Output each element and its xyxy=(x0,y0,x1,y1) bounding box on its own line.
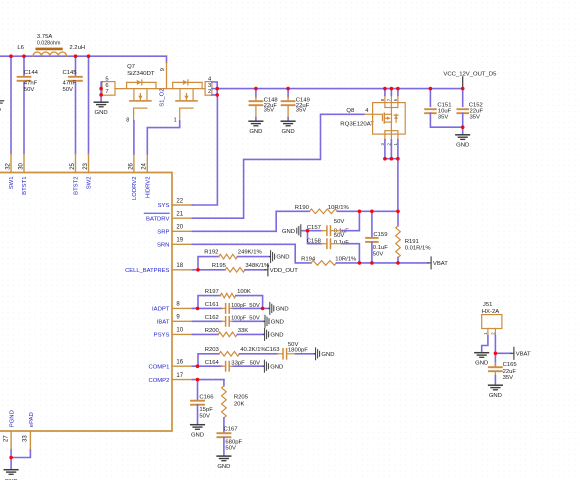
capacitor C161 xyxy=(225,304,227,313)
capacitor C159 xyxy=(366,237,378,239)
svg-text:SYS: SYS xyxy=(158,203,170,209)
svg-text:VCC_12V_OUT_D5: VCC_12V_OUT_D5 xyxy=(443,71,497,77)
svg-text:21: 21 xyxy=(176,212,183,218)
svg-text:50V: 50V xyxy=(334,233,345,239)
svg-text:50V: 50V xyxy=(334,219,345,225)
wire IBAT xyxy=(193,320,222,322)
svg-text:PGND: PGND xyxy=(10,410,16,427)
wire J51 pin2 VBAT xyxy=(494,336,496,366)
svg-text:C164: C164 xyxy=(205,360,220,366)
svg-text:C161: C161 xyxy=(205,302,219,308)
svg-text:30: 30 xyxy=(18,162,24,169)
svg-text:R190: R190 xyxy=(295,205,310,211)
svg-text:27: 27 xyxy=(3,435,9,442)
svg-text:IBAT: IBAT xyxy=(157,320,170,326)
wire to C151 xyxy=(429,89,431,107)
capacitor C164 xyxy=(225,362,227,371)
wire Q8 top pins xyxy=(384,89,386,96)
svg-text:R191: R191 xyxy=(405,239,419,245)
wire BTST2 upper xyxy=(75,56,77,76)
capacitor C152 xyxy=(457,108,468,110)
resistor R192 xyxy=(219,254,238,259)
svg-text:GND: GND xyxy=(475,361,488,367)
wire Q7 drain tie (pins 2-4) xyxy=(212,82,217,95)
svg-text:35V: 35V xyxy=(503,375,514,381)
ground flag (R200) xyxy=(262,333,265,335)
svg-text:C152: C152 xyxy=(469,102,483,108)
ground (PGND) xyxy=(4,469,18,471)
svg-text:SW1: SW1 xyxy=(9,177,15,190)
wire C157 to SRP node xyxy=(342,211,360,230)
ground flag (C163) xyxy=(313,353,316,355)
svg-text:BTST2: BTST2 xyxy=(74,177,80,195)
wire Q8 bottom pins xyxy=(384,140,386,159)
svg-text:0.028ohm: 0.028ohm xyxy=(37,40,61,46)
svg-text:GND: GND xyxy=(217,464,230,470)
capacitor C151 xyxy=(425,108,436,110)
svg-text:ePAD: ePAD xyxy=(29,412,35,427)
pin 23 SW2 xyxy=(88,154,90,173)
svg-text:GND: GND xyxy=(282,129,295,135)
capacitor C163 xyxy=(282,349,284,359)
wire BTST1 lower xyxy=(23,81,25,154)
ground flag (C162) xyxy=(263,320,266,322)
svg-text:R203: R203 xyxy=(205,347,220,353)
wire J51 pin1 to GND xyxy=(482,336,488,352)
svg-text:0.01R/1%: 0.01R/1% xyxy=(405,246,432,252)
svg-text:D: D xyxy=(0,108,1,114)
wire BTST1 upper xyxy=(23,56,25,76)
pin 17 COMP2 xyxy=(172,379,193,381)
svg-text:50V: 50V xyxy=(373,252,384,258)
svg-text:23: 23 xyxy=(83,162,89,169)
svg-text:C167: C167 xyxy=(224,426,238,432)
wire VCC_12V rail xyxy=(217,88,463,90)
svg-text:R197: R197 xyxy=(205,289,219,295)
svg-text:BTST1: BTST1 xyxy=(22,177,28,195)
capacitor C162 xyxy=(225,317,227,326)
wire LODRV2 xyxy=(133,121,135,154)
wire IADPT xyxy=(193,307,222,309)
svg-text:18: 18 xyxy=(176,263,183,269)
wire BTST2 lower xyxy=(75,81,77,154)
svg-text:C144: C144 xyxy=(24,70,39,76)
svg-text:R194: R194 xyxy=(301,257,316,263)
wire PSYS xyxy=(193,333,219,335)
pin 18 CELL_BATPRES xyxy=(172,269,193,271)
wire to R203 xyxy=(198,354,219,366)
svg-text:CELL_BATPRES: CELL_BATPRES xyxy=(125,268,169,274)
svg-text:20: 20 xyxy=(176,225,183,231)
svg-text:SW2: SW2 xyxy=(87,177,93,190)
ground (J51) xyxy=(475,352,489,354)
svg-text:VBAT: VBAT xyxy=(433,261,448,267)
ground flag (C161) xyxy=(268,307,271,309)
svg-text:26: 26 xyxy=(128,162,134,169)
svg-text:R205: R205 xyxy=(234,394,249,400)
ground (C152) xyxy=(456,134,470,136)
svg-text:S1_O2: S1_O2 xyxy=(159,88,165,106)
wire C158 to VBAT node xyxy=(342,244,360,263)
svg-text:249K/1%: 249K/1% xyxy=(238,249,263,255)
wire COMP1 xyxy=(193,365,222,367)
wire to C148 xyxy=(255,89,257,97)
svg-text:SiZ340DT: SiZ340DT xyxy=(127,71,155,77)
pin 27 PGND xyxy=(10,431,12,450)
resistor R190 xyxy=(309,209,337,214)
svg-text:SRN: SRN xyxy=(157,243,169,249)
svg-text:9: 9 xyxy=(160,68,166,71)
svg-text:10R/1%: 10R/1% xyxy=(335,257,357,263)
ground (C149) xyxy=(281,120,295,122)
wire COMP2 xyxy=(193,379,224,381)
transistor Q8 RQ3E120AT xyxy=(340,95,405,145)
pin 10 PSYS xyxy=(172,333,193,335)
svg-text:Q7: Q7 xyxy=(127,64,135,70)
svg-text:50V: 50V xyxy=(24,87,35,93)
pin 8 IADPT xyxy=(172,307,193,309)
wire SRP xyxy=(193,211,310,231)
svg-text:0.1uF: 0.1uF xyxy=(373,245,388,251)
svg-text:LODRV2: LODRV2 xyxy=(132,177,138,200)
svg-text:COMP2: COMP2 xyxy=(148,378,169,384)
svg-text:COMP1: COMP1 xyxy=(148,364,169,370)
wire to R205 xyxy=(223,380,225,386)
pin 22 SYS xyxy=(172,204,193,206)
capacitor C144 xyxy=(18,76,31,78)
svg-text:35V: 35V xyxy=(264,108,275,114)
net label VDD_OUT xyxy=(265,269,268,271)
svg-text:GND: GND xyxy=(489,393,502,399)
svg-text:C158: C158 xyxy=(307,239,322,245)
svg-text:R192: R192 xyxy=(204,249,218,255)
resistor R200 xyxy=(218,332,237,337)
svg-text:50V: 50V xyxy=(225,445,236,451)
svg-text:50V: 50V xyxy=(199,413,210,419)
svg-text:33K: 33K xyxy=(238,328,249,334)
svg-text:IADPT: IADPT xyxy=(152,307,170,313)
wire to C152 xyxy=(462,89,464,107)
svg-text:10: 10 xyxy=(176,328,183,334)
svg-text:L6: L6 xyxy=(17,45,24,51)
wire SYS xyxy=(193,95,218,205)
svg-text:GND: GND xyxy=(276,307,289,313)
pin 32 SW1 xyxy=(10,154,12,173)
pin 20 SRP xyxy=(172,230,193,232)
svg-text:19: 19 xyxy=(176,238,183,244)
resistor R197 xyxy=(220,293,236,298)
resistor R205 xyxy=(222,386,227,418)
pin 33 ePAD xyxy=(29,431,31,450)
svg-text:C166: C166 xyxy=(199,394,214,400)
wire BATDRV to Q8 gate xyxy=(193,114,364,218)
capacitor C165 xyxy=(489,366,502,368)
net label VBAT (J51) xyxy=(511,352,514,354)
pin 9 IBAT xyxy=(172,320,193,322)
resistor R203 xyxy=(219,352,240,357)
wire to C166 xyxy=(197,380,199,401)
wire to C149 xyxy=(287,89,289,97)
capacitor C167 xyxy=(217,432,230,434)
svg-text:17: 17 xyxy=(176,373,183,379)
svg-text:32: 32 xyxy=(5,162,11,169)
wire SW1 xyxy=(10,56,12,154)
svg-text:3.75A: 3.75A xyxy=(37,34,52,40)
net label VBAT xyxy=(428,262,431,264)
svg-text:40.2K/1%: 40.2K/1% xyxy=(240,347,266,353)
wire Q7 source tie (pins 5-7) xyxy=(100,82,103,101)
resistor R195 xyxy=(225,268,245,273)
wire to R197 xyxy=(198,296,220,309)
svg-text:HIDRV2: HIDRV2 xyxy=(145,177,151,199)
resistor R191 xyxy=(396,226,401,258)
wire Q8 source to SRP node xyxy=(397,159,399,212)
svg-text:20K: 20K xyxy=(234,401,245,407)
svg-text:5: 5 xyxy=(105,76,108,82)
svg-text:100K: 100K xyxy=(237,289,251,295)
wire SW2 xyxy=(88,56,90,154)
svg-text:BATDRV: BATDRV xyxy=(146,216,169,222)
svg-text:PSYS: PSYS xyxy=(154,333,170,339)
pin 16 COMP1 xyxy=(172,365,193,367)
ground flag (C164) xyxy=(262,365,265,367)
svg-text:GND: GND xyxy=(191,433,204,439)
svg-text:C163: C163 xyxy=(265,347,280,353)
svg-text:VBAT: VBAT xyxy=(516,352,531,358)
pin 25 BTST2 xyxy=(75,154,77,173)
ground (C148) xyxy=(249,120,263,122)
svg-text:C159: C159 xyxy=(373,232,387,238)
svg-text:GND: GND xyxy=(276,255,289,261)
wire GND to C157 xyxy=(302,230,322,232)
svg-text:RQ3E120AT: RQ3E120AT xyxy=(340,122,374,128)
svg-text:35V: 35V xyxy=(470,114,481,120)
svg-text:J51: J51 xyxy=(483,302,493,308)
capacitor C148 xyxy=(250,100,263,102)
transistor Q7 SiZ340DT (dual MOSFET) xyxy=(102,63,212,124)
net label (partial, canvas edge) xyxy=(0,100,4,102)
svg-text:GND: GND xyxy=(271,319,284,325)
wire VBAT node xyxy=(336,262,427,264)
svg-text:GND: GND xyxy=(270,333,283,339)
svg-text:47nF: 47nF xyxy=(24,80,38,86)
svg-text:15pF: 15pF xyxy=(199,407,213,413)
svg-text:16: 16 xyxy=(176,360,183,366)
svg-text:GND: GND xyxy=(321,352,334,358)
svg-text:33: 33 xyxy=(23,435,29,442)
wire to C159 xyxy=(371,211,373,237)
svg-text:GND: GND xyxy=(249,129,262,135)
capacitor C158 xyxy=(326,239,328,248)
svg-text:7: 7 xyxy=(105,89,108,95)
svg-text:VDD_OUT: VDD_OUT xyxy=(270,268,299,274)
resistor R194 xyxy=(311,261,336,266)
ground flag (R192) xyxy=(268,256,271,258)
svg-text:C162: C162 xyxy=(205,315,219,321)
svg-text:2.2uH: 2.2uH xyxy=(69,45,85,51)
svg-text:8: 8 xyxy=(126,118,129,124)
svg-text:10R/1%: 10R/1% xyxy=(328,205,350,211)
svg-text:C165: C165 xyxy=(503,362,518,368)
pin 21 BATDRV xyxy=(172,217,193,219)
capacitor C149 xyxy=(282,100,295,102)
wire to C158 xyxy=(308,231,322,244)
net label VCC_12V_OUT_D5 xyxy=(462,77,464,89)
pin 19 SRN xyxy=(172,243,193,245)
svg-text:GND: GND xyxy=(270,364,283,370)
wire CELL_BATPRES xyxy=(193,269,226,271)
ground (C166) xyxy=(191,424,205,426)
ground (C165) xyxy=(489,384,503,386)
svg-text:1800pF: 1800pF xyxy=(288,348,308,354)
IC boundary (charger IC, partial) xyxy=(0,173,172,432)
svg-text:2: 2 xyxy=(208,89,211,95)
svg-text:GND: GND xyxy=(95,110,108,116)
svg-text:C151: C151 xyxy=(437,102,451,108)
ground (Q7 source) xyxy=(94,101,108,103)
capacitor C145 xyxy=(69,76,82,78)
svg-text:R200: R200 xyxy=(205,328,220,334)
capacitor C166 xyxy=(191,400,204,402)
inductor L6 xyxy=(17,34,85,56)
connector J51 HX-2A xyxy=(482,302,502,336)
wire to R192 xyxy=(198,257,219,270)
svg-text:50V: 50V xyxy=(63,87,74,93)
capacitor C157 xyxy=(326,226,328,235)
pin 26 LODRV2 xyxy=(133,154,135,173)
wire SW node (top rail) xyxy=(0,56,167,62)
svg-text:24: 24 xyxy=(142,162,148,169)
wire HIDRV2 xyxy=(147,121,179,154)
pin 30 BTST1 xyxy=(23,154,25,173)
svg-text:GND: GND xyxy=(456,143,469,149)
svg-text:Q8: Q8 xyxy=(346,108,355,114)
wire SRN xyxy=(193,244,312,263)
svg-text:35V: 35V xyxy=(438,114,449,120)
svg-text:348K/1%: 348K/1% xyxy=(245,263,270,269)
wire PGND xyxy=(10,450,12,458)
BATDRV overline xyxy=(144,212,169,214)
wire to R191 xyxy=(397,211,399,226)
svg-text:GND: GND xyxy=(282,229,295,235)
svg-text:47nF: 47nF xyxy=(63,80,77,86)
svg-text:SRP: SRP xyxy=(157,230,169,236)
wire SRP node xyxy=(337,210,398,212)
pin 24 HIDRV2 xyxy=(146,154,148,173)
svg-text:22: 22 xyxy=(176,198,183,204)
svg-text:22uF: 22uF xyxy=(503,369,517,375)
svg-text:C145: C145 xyxy=(63,70,78,76)
ground flag (C157) xyxy=(300,230,303,232)
svg-text:1: 1 xyxy=(174,118,177,124)
svg-text:R195: R195 xyxy=(212,263,227,269)
ground (C167) xyxy=(217,455,231,457)
svg-text:35V: 35V xyxy=(296,108,307,114)
svg-text:25: 25 xyxy=(70,162,76,169)
